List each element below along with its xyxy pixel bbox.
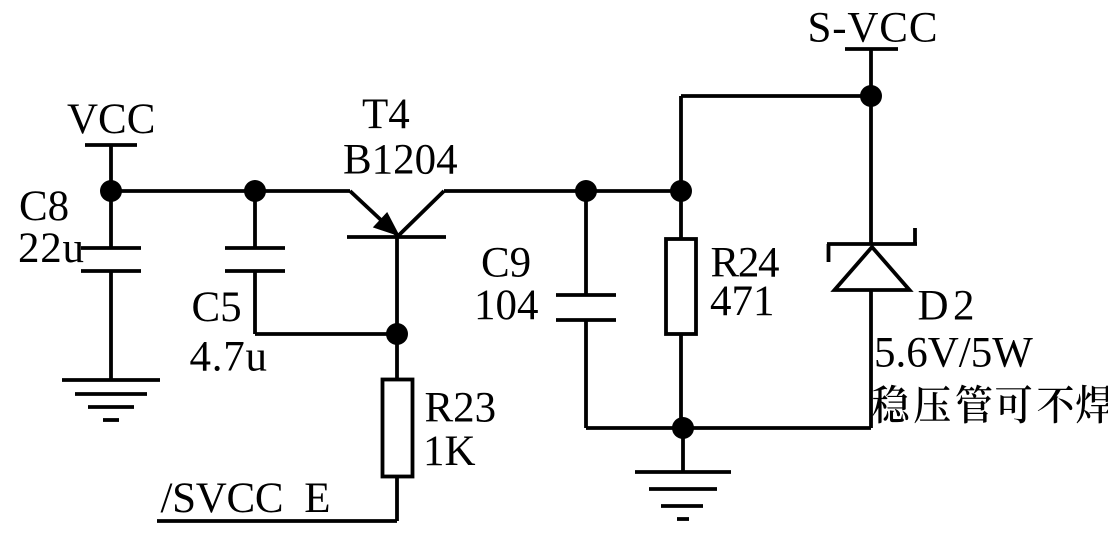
wire bottom rail C9 to D2: [586, 426, 871, 430]
wire top rail right: transistor collector to R24 corner: [444, 189, 683, 193]
junction node R24 top: [670, 180, 692, 202]
svg-text:R23: R23: [425, 385, 497, 432]
svg-text:104: 104: [474, 282, 539, 329]
wire R24 node up and over to S-VCC: [681, 96, 871, 191]
svg-text:C5: C5: [192, 284, 242, 331]
power symbol S-VCC: [845, 49, 898, 96]
wire D2 anode down: [869, 290, 873, 428]
svg-text:471: 471: [710, 278, 775, 325]
wire C5 bottom to transistor base node: [255, 332, 397, 336]
svg-text:22u: 22u: [18, 225, 84, 272]
junction node T4 base: [386, 323, 408, 345]
capacitor C9: [556, 191, 616, 428]
svg-text:4.7u: 4.7u: [190, 334, 268, 381]
svg-text:VCC: VCC: [67, 96, 155, 143]
svg-text:S-VCC: S-VCC: [808, 4, 938, 51]
zener diode D2: [827, 228, 917, 290]
wire S-VCC junction down to D2: [869, 96, 873, 244]
junction node C5: [244, 180, 266, 202]
resistor R24: [666, 191, 696, 428]
svg-text:/SVCC E: /SVCC E: [161, 475, 331, 522]
wire R23 bottom to /SVCC_E stub: [157, 477, 397, 522]
note text (Chinese): [873, 385, 1108, 424]
capacitor C8: [81, 191, 141, 380]
capacitor C5: [225, 191, 285, 334]
junction node S-VCC: [860, 85, 882, 107]
junction node C9: [575, 180, 597, 202]
svg-text:D2: D2: [918, 283, 975, 330]
transistor T4: [347, 191, 446, 380]
resistor R23: [383, 380, 413, 477]
ground (left, under C8): [62, 380, 160, 420]
power symbol VCC: [85, 145, 137, 191]
svg-text:T4: T4: [362, 91, 410, 138]
ground (right, under R24): [635, 428, 731, 519]
junction node VCC/C8: [100, 180, 122, 202]
svg-text:B1204: B1204: [343, 137, 458, 184]
svg-text:5.6V/5W: 5.6V/5W: [874, 330, 1033, 377]
svg-text:C9: C9: [481, 240, 531, 287]
junction node ground rail: [672, 417, 694, 439]
svg-text:C8: C8: [19, 183, 69, 230]
wire top rail left: VCC junction to transistor emitter: [111, 189, 350, 193]
svg-text:1K: 1K: [423, 428, 476, 475]
